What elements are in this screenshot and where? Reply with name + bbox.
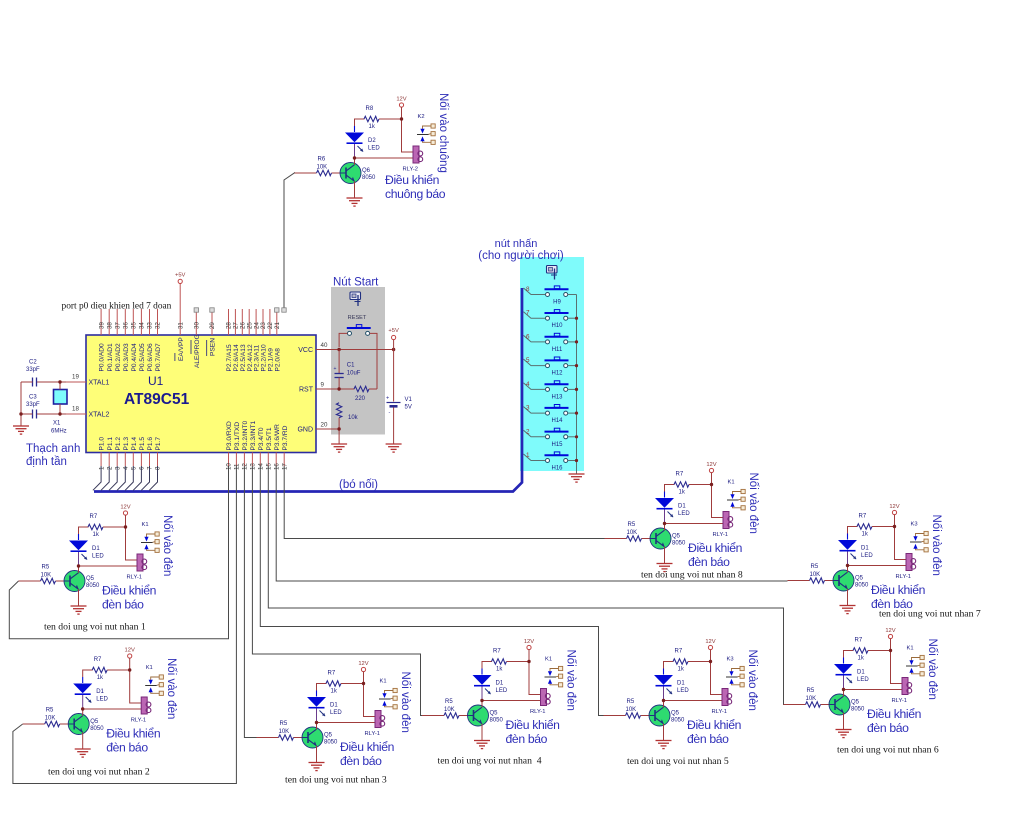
pin 1 P1.0 <box>98 437 105 470</box>
svg-text:ten doi ung voi nut nhan 4: ten doi ung voi nut nhan 4 <box>438 756 542 767</box>
ground below start block <box>331 444 347 452</box>
svg-text:D2: D2 <box>368 138 376 144</box>
junction on 12V rail (circuit 4) <box>527 660 530 663</box>
svg-text:1k: 1k <box>858 656 865 662</box>
resistor R5 10K (circuit 5) <box>626 699 641 718</box>
svg-text:đèn báo: đèn báo <box>340 754 382 768</box>
svg-text:Thạch anh: Thạch anh <box>26 443 80 455</box>
pin 26 P2.5/A13 <box>240 309 247 372</box>
wire emitter (circuit 5) <box>663 724 665 741</box>
wire net P3.7 to circuit 8 <box>284 465 604 539</box>
pin 37 P0.2/AD2 <box>114 309 121 372</box>
svg-text:36: 36 <box>123 322 130 329</box>
svg-text:P3.5/T1: P3.5/T1 <box>266 427 273 450</box>
LED D1 (circuit 3) <box>307 691 342 723</box>
wire H9 left to bus <box>524 288 546 295</box>
start button block background <box>331 287 385 435</box>
junction common rail row 2 <box>575 317 578 320</box>
svg-text:Nối vào đèn: Nối vào đèn <box>747 473 759 534</box>
svg-text:8050: 8050 <box>490 718 504 724</box>
svg-text:port p0 dieu khien led 7 doan: port p0 dieu khien led 7 doan <box>62 302 172 312</box>
label nut nhan (cho nguoi choi) <box>478 238 564 262</box>
svg-text:Điều khiển: Điều khiển <box>688 541 742 555</box>
wire collector (circuit 6) <box>843 690 845 697</box>
svg-text:39: 39 <box>98 322 105 329</box>
resistor R7 1k (circuit 1) <box>88 514 103 538</box>
push button H11 <box>545 333 569 353</box>
svg-text:14: 14 <box>258 463 265 470</box>
LED D1 (circuit 6) <box>834 658 869 690</box>
ground below Q5 (circuit 7) <box>840 606 856 614</box>
resistor R5 10K (circuit 2) <box>45 708 60 727</box>
svg-text:+5V: +5V <box>388 328 399 334</box>
junction on 12V rail (circuit 7) <box>893 525 896 528</box>
svg-text:2: 2 <box>526 428 530 435</box>
svg-text:Q5: Q5 <box>90 719 99 725</box>
wire LED to R7 (circuit 3) <box>317 684 327 691</box>
wire collector (circuit 4) <box>481 701 483 708</box>
ground below Q5 (circuit 1) <box>71 606 87 614</box>
svg-text:Nối vào đèn: Nối vào đèn <box>926 639 938 700</box>
svg-text:29: 29 <box>209 322 216 329</box>
svg-text:K3: K3 <box>727 657 734 663</box>
svg-text:12V: 12V <box>125 648 135 654</box>
connector K1 (circuit 8) <box>727 480 745 510</box>
push button start <box>347 325 371 336</box>
wire R7 to 12V rail (circuit 1) <box>103 526 126 528</box>
wire pin 1 to bus <box>93 466 101 490</box>
wire emitter (circuit 2) <box>82 732 84 749</box>
svg-text:4: 4 <box>123 466 130 470</box>
svg-text:12V: 12V <box>889 504 899 510</box>
wire emitter (circuit bell) <box>354 181 356 198</box>
svg-text:LED: LED <box>861 553 873 559</box>
pin 12 P3.2/INT0 <box>242 420 249 470</box>
relay RLY-1 (circuit 4) <box>530 689 550 716</box>
pin 40 VCC <box>298 342 328 354</box>
svg-text:R5: R5 <box>46 708 54 714</box>
svg-text:LED: LED <box>496 688 508 694</box>
wire collector to relay (circuit 7) <box>848 565 907 567</box>
junction RST node <box>337 387 340 390</box>
svg-text:7: 7 <box>147 466 154 470</box>
ground below crystal caps <box>13 426 29 434</box>
svg-text:8050: 8050 <box>324 740 338 746</box>
label Điều khiển đèn báo (circuit 4) <box>506 718 560 746</box>
wire H11 left to bus <box>524 335 546 342</box>
svg-text:H15: H15 <box>551 442 563 448</box>
pin 39 P0.0/AD0 <box>98 309 105 372</box>
power terminal 12V (circuit 1) <box>120 505 130 516</box>
resistor 220 <box>354 386 377 402</box>
wire net P2.0 to bell circuit <box>284 173 295 308</box>
power terminal 12V (circuit 3) <box>358 661 368 672</box>
resistor R7 1k (circuit 7) <box>857 514 872 538</box>
svg-text:P0.3/AD3: P0.3/AD3 <box>123 343 130 372</box>
pin 13 P3.3/INT1 <box>250 420 257 470</box>
svg-text:R7: R7 <box>855 638 863 644</box>
wire collector to relay (circuit bell) <box>355 157 414 159</box>
svg-text:ten doi ung voi nut nhan 2: ten doi ung voi nut nhan 2 <box>48 767 150 778</box>
junction collector node (circuit 4) <box>480 699 483 702</box>
svg-text:H13: H13 <box>551 394 563 400</box>
label Điều khiển đèn báo (circuit 1) <box>102 584 156 612</box>
svg-text:R7: R7 <box>90 514 98 520</box>
svg-text:EA/VPP: EA/VPP <box>178 337 185 361</box>
svg-text:8050: 8050 <box>362 175 376 181</box>
svg-text:Q5: Q5 <box>671 711 680 717</box>
svg-text:17: 17 <box>281 463 288 470</box>
pin 36 P0.3/AD3 <box>123 309 130 372</box>
resistor R7 1k (circuit 4) <box>492 649 507 673</box>
svg-text:1k: 1k <box>97 675 104 681</box>
wire emitter (circuit 4) <box>481 724 483 741</box>
ground below Q5 (circuit 5) <box>656 741 672 749</box>
svg-text:10K: 10K <box>41 573 52 579</box>
svg-text:12V: 12V <box>396 97 406 103</box>
svg-text:Điều khiển: Điều khiển <box>102 584 156 598</box>
pin 27 P2.6/A14 <box>233 309 240 372</box>
svg-text:D1: D1 <box>861 546 869 552</box>
svg-text:K1: K1 <box>545 657 552 663</box>
junction common rail row 3 <box>575 340 578 343</box>
svg-text:K3: K3 <box>911 522 918 528</box>
ground below button block <box>569 474 585 482</box>
svg-text:P1.6: P1.6 <box>147 437 154 451</box>
wire base of Q5 (circuit 6) <box>784 704 830 706</box>
svg-text:RLY-1: RLY-1 <box>131 718 146 724</box>
junction collector node (circuit 1) <box>77 564 80 567</box>
pin 21 P2.0/A8 <box>274 309 281 372</box>
junction collector node (circuit 8) <box>663 522 666 525</box>
push button H14 <box>545 405 569 425</box>
connector K2 (circuit bell) <box>417 114 435 144</box>
wire base of Q5 (circuit 7) <box>788 580 834 582</box>
wire pin 3 to bus <box>109 466 117 490</box>
wire +5V to battery <box>393 340 395 402</box>
svg-text:K1: K1 <box>146 665 153 671</box>
pin 24 P2.3/A11 <box>253 309 260 372</box>
svg-text:P0.6/AD6: P0.6/AD6 <box>147 343 154 372</box>
wire collector (circuit 1) <box>78 566 80 573</box>
wire H13 left to bus <box>524 383 546 390</box>
svg-text:8050: 8050 <box>671 718 685 724</box>
wire button right to reset net <box>370 333 377 389</box>
resistor R5 10K (circuit 4) <box>444 699 459 718</box>
svg-text:LED: LED <box>368 146 380 152</box>
svg-text:P0.1/AD1: P0.1/AD1 <box>107 343 114 372</box>
wire LED to R8 (circuit bell) <box>355 119 365 126</box>
power terminal 12V (circuit 2) <box>125 648 135 659</box>
svg-text:10k: 10k <box>348 415 359 421</box>
wire pin 2 to bus <box>101 466 109 490</box>
svg-text:P1.7: P1.7 <box>155 437 162 451</box>
svg-text:K1: K1 <box>380 679 387 685</box>
wire H15 right to common <box>568 436 577 438</box>
wire R7 to 12V rail (circuit 6) <box>868 650 891 652</box>
svg-text:12: 12 <box>242 463 249 470</box>
resistor R7 1k (circuit 5) <box>673 649 688 673</box>
svg-text:21: 21 <box>274 322 281 329</box>
svg-text:10K: 10K <box>279 729 290 735</box>
svg-text:Nối vào đèn: Nối vào đèn <box>165 658 177 719</box>
wire collector to relay (circuit 5) <box>664 700 723 702</box>
svg-text:K1: K1 <box>142 522 149 528</box>
relay RLY-1 (circuit 8) <box>713 512 733 539</box>
svg-text:P1.1: P1.1 <box>107 437 114 451</box>
svg-text:H12: H12 <box>551 371 563 377</box>
svg-text:16: 16 <box>273 463 280 470</box>
LED D1 (circuit 2) <box>73 677 108 709</box>
wire H16 left to bus <box>524 454 546 461</box>
svg-text:3: 3 <box>114 466 121 470</box>
wire 12V rail (circuit 4) <box>529 650 541 695</box>
svg-text:10K: 10K <box>45 716 56 722</box>
svg-text:R5: R5 <box>627 699 635 705</box>
svg-text:ten doi ung voi nut nhan 8: ten doi ung voi nut nhan 8 <box>641 570 743 581</box>
wire pin 7 to bus <box>141 466 149 490</box>
svg-text:1: 1 <box>98 466 105 470</box>
svg-text:11: 11 <box>234 463 241 470</box>
svg-text:PSEN: PSEN <box>210 338 217 356</box>
wire RST pin 9 net <box>316 388 355 390</box>
svg-text:10uF: 10uF <box>347 371 361 377</box>
svg-text:6: 6 <box>139 466 146 470</box>
svg-text:10K: 10K <box>626 707 637 713</box>
svg-text:RLY-1: RLY-1 <box>365 731 380 737</box>
svg-text:R5: R5 <box>445 699 453 705</box>
svg-text:5V: 5V <box>405 405 412 411</box>
svg-text:Nút Start: Nút Start <box>333 277 379 289</box>
terminal pad at pin 21 <box>275 308 279 312</box>
svg-text:ALE/PROG: ALE/PROG <box>194 334 201 368</box>
svg-text:đèn báo: đèn báo <box>687 732 729 746</box>
svg-text:12V: 12V <box>885 628 895 634</box>
svg-text:10K: 10K <box>444 707 455 713</box>
pin 32 P0.7/AD7 <box>155 309 162 372</box>
wire H12 left to bus <box>524 359 546 366</box>
junction common rail row 4 <box>575 364 578 367</box>
svg-text:R5: R5 <box>807 688 815 694</box>
ground below Q5 (circuit 8) <box>657 564 673 572</box>
pin 20 GND <box>297 422 328 434</box>
svg-text:RLY-1: RLY-1 <box>712 709 727 715</box>
junction VCC/+5V <box>392 348 395 351</box>
transistor Q5 8050 (circuit 7) <box>833 570 869 591</box>
wire net P3.5 to circuit 6 <box>268 465 787 705</box>
svg-text:12V: 12V <box>705 639 715 645</box>
svg-text:H10: H10 <box>551 323 563 329</box>
label Điều khiển đèn báo (circuit 8) <box>688 541 742 569</box>
svg-text:X1: X1 <box>53 421 61 427</box>
svg-text:P3.7/RD: P3.7/RD <box>282 425 289 450</box>
label Điều khiển đèn báo (circuit 6) <box>867 707 921 735</box>
svg-text:34: 34 <box>139 322 146 329</box>
svg-text:đèn báo: đèn báo <box>688 555 730 569</box>
ground below Q6 (circuit bell) <box>347 198 363 206</box>
wire LED to R7 (circuit 6) <box>844 651 854 658</box>
svg-text:P0.7/AD7: P0.7/AD7 <box>155 343 162 372</box>
wire H12 right to common <box>568 365 577 367</box>
svg-text:P1.2: P1.2 <box>115 437 122 451</box>
junction common rail row 5 <box>575 388 578 391</box>
svg-text:10: 10 <box>226 463 233 470</box>
junction on 12V rail (circuit 3) <box>362 682 365 685</box>
wire collector (circuit 3) <box>316 723 318 730</box>
svg-text:R6: R6 <box>318 157 326 163</box>
svg-text:5: 5 <box>131 466 138 470</box>
junction GND node <box>337 427 340 430</box>
capacitor C1 10uF <box>334 350 361 390</box>
pin 19 XTAL1 <box>66 374 109 387</box>
power terminal 12V (circuit 8) <box>706 462 716 473</box>
svg-text:4: 4 <box>526 381 530 388</box>
svg-text:35: 35 <box>131 322 138 329</box>
wire emitter (circuit 3) <box>316 746 318 763</box>
pin 29 PSEN <box>207 308 217 356</box>
wire emitter (circuit 6) <box>843 713 845 730</box>
svg-text:P3.4/T0: P3.4/T0 <box>258 427 265 450</box>
svg-text:15: 15 <box>266 463 273 470</box>
svg-text:LED: LED <box>330 710 342 716</box>
label Điều khiển đèn báo (circuit 2) <box>106 727 160 755</box>
svg-text:9: 9 <box>321 382 325 389</box>
svg-text:6: 6 <box>526 333 530 340</box>
svg-text:P3.0/RXD: P3.0/RXD <box>226 421 233 451</box>
pin 31 EA/VPP <box>175 284 185 362</box>
svg-text:P1.4: P1.4 <box>131 437 138 451</box>
wire LED to R7 (circuit 8) <box>665 485 675 492</box>
wire 12V rail (circuit 7) <box>895 515 907 560</box>
pin 28 P2.7/A15 <box>226 309 233 372</box>
wire 12V rail (circuit 5) <box>711 650 723 695</box>
svg-text:LED: LED <box>857 677 869 683</box>
junction on 12V rail (circuit 2) <box>128 668 131 671</box>
svg-text:Q5: Q5 <box>490 711 499 717</box>
relay RLY-1 (circuit 2) <box>131 697 151 724</box>
relay RLY-1 (circuit 7) <box>896 554 916 581</box>
svg-text:VCC: VCC <box>298 347 313 354</box>
svg-text:33pF: 33pF <box>26 367 40 373</box>
junction on 12V rail (circuit 1) <box>124 525 127 528</box>
wire emitter (circuit 1) <box>78 589 80 606</box>
svg-text:P0.5/AD5: P0.5/AD5 <box>139 343 146 372</box>
pin 15 P3.5/T1 <box>266 427 273 470</box>
capacitor C2 33pF <box>21 360 40 387</box>
svg-text:H14: H14 <box>551 418 563 424</box>
svg-text:R8: R8 <box>366 106 374 112</box>
svg-text:12V: 12V <box>524 639 534 645</box>
power terminal 12V (circuit 5) <box>705 639 715 650</box>
relay RLY-1 (circuit 1) <box>127 554 147 581</box>
svg-text:Điều khiển: Điều khiển <box>871 583 925 597</box>
wire collector to relay (circuit 4) <box>482 700 541 702</box>
wire collector (circuit 5) <box>663 701 665 708</box>
LED D1 (circuit 5) <box>654 669 689 701</box>
svg-text:R7: R7 <box>676 472 684 478</box>
wire LED to R7 (circuit 4) <box>482 662 492 669</box>
svg-text:R5: R5 <box>628 522 636 528</box>
svg-text:XTAL1: XTAL1 <box>89 380 110 387</box>
ground below Q5 (circuit 3) <box>309 763 325 771</box>
svg-text:1k: 1k <box>678 667 685 673</box>
relay RLY-1 (circuit 5) <box>712 689 732 716</box>
svg-text:GND: GND <box>297 427 313 434</box>
wire collector to relay (circuit 1) <box>79 565 138 567</box>
svg-text:C2: C2 <box>29 360 37 366</box>
wire H10 left to bus <box>524 312 546 319</box>
wire LED to R7 (circuit 1) <box>79 527 89 534</box>
pin 6 P1.5 <box>139 437 146 470</box>
ground below Q5 (circuit 6) <box>836 730 852 738</box>
wire collector to relay (circuit 3) <box>317 722 376 724</box>
svg-text:37: 37 <box>114 322 121 329</box>
svg-text:RLY-1: RLY-1 <box>530 709 545 715</box>
transistor Q5 8050 (circuit 4) <box>468 705 504 726</box>
svg-text:33: 33 <box>147 322 154 329</box>
wire net P3.0 to circuit 1 <box>9 465 228 639</box>
resistor 10k <box>336 403 358 421</box>
svg-text:D1: D1 <box>677 681 685 687</box>
svg-text:Điều khiển: Điều khiển <box>506 718 560 732</box>
wire H10 right to common <box>568 317 577 319</box>
svg-text:Nối vào chuông: Nối vào chuông <box>437 93 449 173</box>
svg-text:1k: 1k <box>331 689 338 695</box>
wire base of Q5 (circuit 5) <box>604 715 650 717</box>
LED D2 (circuit bell) <box>345 126 380 158</box>
pin 18 XTAL2 <box>66 406 109 419</box>
wire collector (circuit 8) <box>664 524 666 531</box>
svg-text:ten doi ung voi nut nhan 3: ten doi ung voi nut nhan 3 <box>285 775 387 786</box>
push button H12 <box>545 357 569 377</box>
LED D1 (circuit 1) <box>69 534 104 566</box>
ground below Q5 (circuit 2) <box>75 749 91 757</box>
junction on 12V rail (circuit 5) <box>709 660 712 663</box>
wire net P3.1 to circuit 2 <box>13 465 237 784</box>
wire collector (circuit 7) <box>847 566 849 573</box>
resistor R5 10K (circuit 1) <box>41 565 56 584</box>
push button H13 <box>545 381 569 401</box>
power terminal +5V above pin 31 <box>175 273 186 284</box>
svg-text:P3.1/TXD: P3.1/TXD <box>234 422 241 451</box>
press icon player buttons <box>547 266 558 280</box>
wire 12V rail (circuit 3) <box>364 672 376 717</box>
svg-text:P0.2/AD2: P0.2/AD2 <box>115 343 122 372</box>
power terminal +5V start <box>388 328 399 340</box>
label Thach anh dinh tan <box>26 443 80 468</box>
svg-text:+: + <box>386 396 389 402</box>
label Điều khiển đèn báo (circuit 3) <box>340 740 394 768</box>
svg-text:38: 38 <box>106 322 113 329</box>
svg-text:Q5: Q5 <box>855 576 864 582</box>
svg-text:LED: LED <box>678 511 690 517</box>
IC U1 AT89C51 body <box>86 335 316 453</box>
svg-text:19: 19 <box>72 374 79 381</box>
wire caps to ground <box>20 382 22 426</box>
wire 12V rail (circuit 1) <box>126 515 138 560</box>
wire GND pin 20 net <box>316 428 339 430</box>
svg-text:8050: 8050 <box>855 583 869 589</box>
svg-text:8: 8 <box>526 286 530 293</box>
svg-text:R7: R7 <box>859 514 867 520</box>
svg-text:40: 40 <box>321 342 328 349</box>
junction XTAL2/ground <box>19 412 22 415</box>
wire R7 to 12V rail (circuit 4) <box>507 661 530 663</box>
svg-text:P1.0: P1.0 <box>99 437 106 451</box>
svg-text:Điều khiển: Điều khiển <box>867 707 921 721</box>
svg-text:Q6: Q6 <box>362 168 371 174</box>
resistor R7 1k (circuit 2) <box>92 657 107 681</box>
